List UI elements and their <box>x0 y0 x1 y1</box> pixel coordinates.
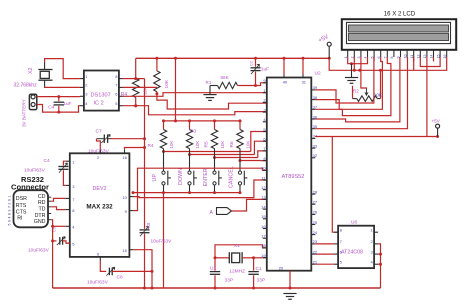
potentiometer R2 10K <box>353 70 381 101</box>
label U6 <box>351 220 357 226</box>
battery connector J1 3V BATTERY <box>29 94 36 109</box>
svg-text:8: 8 <box>390 57 394 59</box>
U6 left pin stubs <box>334 232 338 264</box>
wire MAX232 pin16 to VCC <box>125 148 145 150</box>
connector J2 RS232 <box>14 190 49 227</box>
svg-text:DEV2: DEV2 <box>92 186 106 192</box>
svg-text:10K: 10K <box>220 141 225 149</box>
label DOWN <box>178 168 184 185</box>
wire U2 pin40 VCC <box>283 58 285 77</box>
label C8 value <box>87 280 109 286</box>
svg-text:R4: R4 <box>148 143 154 149</box>
wire button ground rail <box>132 191 242 194</box>
label AT89S52 <box>282 174 305 180</box>
svg-text:10K: 10K <box>195 141 200 149</box>
svg-text:33: 33 <box>313 143 318 148</box>
label IC 2 <box>94 101 104 107</box>
svg-text:10uF/63V: 10uF/63V <box>87 280 109 286</box>
svg-text:10K: 10K <box>246 141 251 149</box>
svg-text:CD: CD <box>38 194 46 200</box>
label 1uF C2 <box>261 67 269 73</box>
DS1307 right pin stubs <box>119 79 123 106</box>
svg-text:7: 7 <box>8 206 12 208</box>
wire +5V drop to buttons <box>175 58 177 121</box>
label 12MHZ <box>229 268 245 274</box>
svg-text:R6: R6 <box>229 141 235 147</box>
svg-text:+5V: +5V <box>431 118 440 124</box>
label C5 <box>53 227 57 232</box>
wire X2 bottom to DS1307 pin2 <box>45 86 80 89</box>
capacitor C8 <box>100 261 153 276</box>
U2 left pin stubs <box>263 83 267 258</box>
svg-text:DTR: DTR <box>35 213 46 219</box>
wire XTAL node to U2 pin18 <box>214 245 267 259</box>
label MAX 232 <box>86 204 113 211</box>
label +5V right <box>431 118 440 124</box>
wire buttons to bottom rail <box>163 193 165 288</box>
label ENTER <box>203 168 209 186</box>
svg-text:UP: UP <box>152 174 158 182</box>
push button DOWN <box>188 149 197 193</box>
label C7 <box>96 129 102 135</box>
svg-text:10: 10 <box>403 55 407 59</box>
resistor R8 pull-up <box>154 58 160 95</box>
LCD pin stubs <box>348 50 447 57</box>
svg-text:R2: R2 <box>353 89 359 94</box>
svg-text:U2: U2 <box>315 71 321 77</box>
svg-text:CANCEL: CANCEL <box>229 166 235 188</box>
label 56K <box>221 75 230 80</box>
svg-text:32: 32 <box>313 153 318 158</box>
svg-text:MAX 232: MAX 232 <box>86 204 113 211</box>
svg-text:15: 15 <box>261 214 266 219</box>
svg-text:10uF/63V: 10uF/63V <box>151 239 173 245</box>
wire U2 pin21 to U6 pin5 <box>315 263 334 265</box>
wire button pullup rail <box>162 119 242 122</box>
svg-text:14: 14 <box>261 204 266 209</box>
label X2 <box>28 68 34 74</box>
wire U2 pin20 to ground <box>289 271 291 288</box>
label R4 10K <box>169 141 174 149</box>
svg-text:33P: 33P <box>225 278 234 284</box>
svg-text:GND: GND <box>34 219 46 225</box>
label R6 10K <box>246 141 251 149</box>
svg-text:U1: U1 <box>210 266 216 272</box>
crystal X1 12MHZ <box>215 252 254 263</box>
svg-text:10uF/63V: 10uF/63V <box>28 248 50 254</box>
wire tag A to U2 pin13 <box>232 199 267 211</box>
svg-text:20: 20 <box>279 265 284 270</box>
wire battery- to DS1307 pin4 <box>37 105 80 113</box>
label R3 <box>190 129 196 135</box>
label R8 value <box>164 79 170 88</box>
svg-text:19: 19 <box>261 253 266 258</box>
capacitor U1 33P <box>210 258 220 288</box>
svg-text:33P: 33P <box>257 278 266 284</box>
LCD display row 2 <box>349 33 449 40</box>
label C5 value <box>28 248 50 254</box>
U2 left pin numbers <box>261 78 266 258</box>
wire U2 pin23 to U6 pin7 <box>315 243 334 245</box>
push button CANCEL <box>238 149 247 193</box>
capacitor C3 <box>58 161 68 185</box>
DS1307 left pin stubs <box>80 79 84 106</box>
svg-text:CTS: CTS <box>16 209 27 215</box>
wire SCL net to U2 pin2 <box>157 94 267 109</box>
wire TD to MAX232 pin8 <box>51 207 66 210</box>
label R4 value <box>143 87 148 95</box>
wire U2 P0.2 to LCD D2 <box>315 57 391 116</box>
wire DS1307 pin7 net <box>123 86 157 88</box>
label C1 33P <box>257 278 266 284</box>
svg-text:RD: RD <box>38 200 46 206</box>
svg-text:1: 1 <box>8 195 12 197</box>
label C1 <box>256 266 262 272</box>
wire UP node to U2 <box>162 132 267 154</box>
svg-text:1uF: 1uF <box>63 101 71 107</box>
connector pin stubs <box>48 197 52 220</box>
resistor R4 10K button pull-up <box>160 121 166 149</box>
svg-text:8: 8 <box>8 213 12 215</box>
svg-text:2: 2 <box>8 202 12 204</box>
label Connector <box>11 183 49 192</box>
label C3 value <box>24 168 46 174</box>
wire +5V feed to EEPROM <box>332 137 338 233</box>
ground under R1 <box>203 95 216 101</box>
wire +5V rail end to LCD <box>329 57 447 72</box>
label 1uF <box>63 101 71 107</box>
label U1 <box>210 266 216 272</box>
label A <box>210 210 214 216</box>
svg-text:DOWN: DOWN <box>178 168 184 185</box>
svg-text:U6: U6 <box>351 220 357 226</box>
LCD inner bezel <box>347 22 451 43</box>
capacitor C1 33P <box>248 258 258 288</box>
label C4 <box>48 104 54 110</box>
wire LCD D5 to bus <box>426 57 428 137</box>
label U1 33P <box>225 278 234 284</box>
push button UP <box>162 149 171 193</box>
LCD pin leads <box>374 57 433 62</box>
IC U3 DS1307 <box>84 71 119 111</box>
IC U2 AT89S52 <box>267 78 312 271</box>
label RS232 <box>21 175 44 184</box>
label C6 value <box>151 239 173 245</box>
capacitor C7 <box>97 135 112 143</box>
svg-text:C2: C2 <box>249 61 253 66</box>
label C2 <box>249 61 253 66</box>
wire C7 left to MAX232 pin2 <box>97 139 101 150</box>
label R1 <box>206 80 212 85</box>
wire R1 to RST <box>238 83 267 87</box>
svg-text:C1: C1 <box>256 266 262 272</box>
wire U2 P0.0 to LCD D0 <box>315 57 374 103</box>
IC U6 AT24C08 <box>338 226 374 268</box>
svg-text:RI: RI <box>17 216 22 222</box>
label UP <box>152 174 158 182</box>
MAX232 pin stubs <box>66 149 134 261</box>
svg-text:X2: X2 <box>28 68 34 74</box>
svg-text:16: 16 <box>261 224 266 229</box>
wire U6 address pins to ground <box>378 244 382 288</box>
svg-text:10: 10 <box>122 195 127 200</box>
label R2 <box>353 89 359 94</box>
resistor R3 10K button pull-up <box>186 121 192 149</box>
U2 right pin numbers <box>313 85 318 264</box>
wire MAX232 pin9 to U2 pin10 <box>133 168 266 210</box>
label R2 10K <box>374 92 383 97</box>
svg-text:16 X 2 LCD: 16 X 2 LCD <box>384 11 416 18</box>
svg-text:32.768khz: 32.768khz <box>14 83 38 89</box>
wire MAX232 pin10 to U2 pin11 <box>133 180 266 198</box>
svg-text:X1: X1 <box>234 243 240 248</box>
svg-text:15: 15 <box>122 248 127 253</box>
capacitor C6 <box>140 226 150 289</box>
svg-text:3: 3 <box>8 209 12 211</box>
wire VCC drop to MAX232 <box>143 79 146 229</box>
label 32.768khz <box>14 83 38 89</box>
tag A pointer <box>217 208 232 215</box>
svg-text:DS1307: DS1307 <box>91 93 111 99</box>
label 16 X 2 LCD <box>384 11 416 18</box>
wire X2 top to DS1307 pin1 <box>45 59 80 79</box>
svg-text:31: 31 <box>302 80 307 85</box>
svg-text:R5: R5 <box>204 141 210 147</box>
U6 pin numbers <box>340 227 374 264</box>
DS1307 pin numbers <box>85 74 118 106</box>
label R4 <box>121 92 128 98</box>
svg-text:25: 25 <box>313 220 318 225</box>
svg-text:C7: C7 <box>96 129 102 135</box>
capacitor C4 <box>54 95 64 114</box>
connector pin labels right <box>34 194 46 225</box>
label R5 10K <box>220 141 225 149</box>
U2 pin20 number <box>279 265 284 270</box>
MAX232 pin numbers <box>72 155 127 256</box>
wire SDA net to U2 pin3 <box>123 104 267 115</box>
svg-text:10K: 10K <box>164 79 170 88</box>
svg-text:AT89S52: AT89S52 <box>282 174 305 180</box>
ground under LCD <box>345 64 358 84</box>
svg-text:C4: C4 <box>48 104 54 110</box>
LCD LCD1 16x2 outer <box>342 19 456 50</box>
U2 top pin numbers <box>283 80 307 85</box>
svg-text:3V BATTERY: 3V BATTERY <box>22 99 27 127</box>
IC U4 MAX232 <box>70 153 130 257</box>
wire battery+ to DS1307 pin3 <box>37 96 80 98</box>
wire +5V top rail <box>136 57 331 60</box>
svg-text:C8: C8 <box>146 222 151 228</box>
svg-text:6: 6 <box>8 199 12 201</box>
svg-text:10K: 10K <box>169 141 174 149</box>
wire GND to bottom rail <box>51 220 52 288</box>
connector pin labels left <box>16 196 27 221</box>
wire LCD pin11 to +5V bus <box>413 57 415 70</box>
wire ENTER node to U2 <box>213 151 267 159</box>
label CANCEL <box>229 166 235 188</box>
wire U2 P0.5 / +5V bus <box>315 135 439 138</box>
wire RD to MAX232 pin7 <box>51 198 66 201</box>
capacitor C5 <box>51 225 70 245</box>
U2 right pin stubs <box>311 90 315 264</box>
wire LCD pin2 VDD <box>353 57 355 70</box>
label R3 10K <box>195 141 200 149</box>
svg-text:1uF: 1uF <box>261 67 269 73</box>
label C8 <box>117 275 123 281</box>
label 3V BATTERY <box>22 99 27 127</box>
svg-text:10: 10 <box>261 166 266 171</box>
svg-text:26: 26 <box>313 210 318 215</box>
wire R2 wiper to LCD pin3 <box>361 57 367 89</box>
label U2 <box>315 71 321 77</box>
svg-text:ENTER: ENTER <box>203 168 209 186</box>
resistor R4 pull-up <box>133 58 139 107</box>
svg-text:R1: R1 <box>206 80 212 85</box>
svg-text:DSR: DSR <box>16 196 27 202</box>
wire U2 P0.1 to LCD D1 <box>315 57 382 109</box>
svg-text:28: 28 <box>313 189 318 194</box>
svg-text:13: 13 <box>261 195 266 200</box>
power terminal +5V top <box>327 42 331 58</box>
wire XTAL right node to U2 pin19 <box>252 256 267 259</box>
wire C7 right to VCC <box>112 138 145 140</box>
label C7 value <box>88 149 110 155</box>
ground at U2 pin20 <box>283 294 296 300</box>
svg-text:C8: C8 <box>117 275 123 281</box>
resistor R6 10K button pull-up <box>237 121 243 149</box>
svg-text:18: 18 <box>261 243 266 248</box>
svg-text:27: 27 <box>313 200 318 205</box>
wire LCD pin15 corner <box>420 57 440 67</box>
wire DS1307 pin8 VCC <box>123 78 145 80</box>
wire MAX232 pin15 to ground rail <box>133 250 153 290</box>
resistor R1 56K <box>210 82 238 94</box>
svg-text:12: 12 <box>261 185 266 190</box>
LCD display row 1 <box>349 25 449 32</box>
wire CANCEL node to U2 <box>239 159 267 162</box>
svg-text:IC 2: IC 2 <box>94 101 104 107</box>
svg-text:10uF/63V: 10uF/63V <box>24 168 46 174</box>
wire LCD ground net <box>348 57 368 65</box>
label +5V top <box>318 34 330 44</box>
svg-text:16: 16 <box>122 155 127 160</box>
svg-text:TD: TD <box>38 206 45 212</box>
label AT24C08 <box>341 250 363 256</box>
label C6 <box>146 222 151 228</box>
wire DOWN node to U2 <box>188 141 267 156</box>
svg-text:56K: 56K <box>221 75 230 80</box>
wire U2 P0.3 to LCD D3 <box>315 57 400 122</box>
label X1 <box>234 243 240 248</box>
svg-text:RTS: RTS <box>16 203 27 209</box>
wire U2 pin31 EA <box>302 58 304 77</box>
connector pin numbers <box>8 195 12 225</box>
LCD pin numbers <box>344 55 447 59</box>
svg-text:5: 5 <box>8 223 12 225</box>
wire SQW net to U2 pin1 <box>123 93 267 97</box>
svg-text:4: 4 <box>8 216 12 218</box>
wire bottom ground rail <box>53 287 381 290</box>
push button ENTER <box>213 149 222 193</box>
label R6 <box>229 141 235 147</box>
label C3 <box>44 158 50 164</box>
svg-text:AT24C08: AT24C08 <box>341 250 363 256</box>
svg-text:9: 9 <box>8 220 12 222</box>
svg-text:C4: C4 <box>44 158 50 164</box>
crystal X2 32.768kHz <box>38 63 52 87</box>
label R5 <box>204 141 210 147</box>
capacitor C2 1uF <box>251 58 261 85</box>
svg-text:R3: R3 <box>190 129 196 135</box>
svg-text:10K: 10K <box>374 92 383 97</box>
U6 right pin stubs <box>374 232 378 264</box>
label R4 <box>148 143 154 149</box>
label DEV2 <box>92 186 106 192</box>
wire U2 P0.4 to LCD D4 <box>315 57 407 129</box>
resistor R5 10K button pull-up <box>211 121 217 149</box>
svg-text:17: 17 <box>261 234 266 239</box>
power terminal +5V right <box>436 124 440 136</box>
svg-text:24: 24 <box>313 230 318 235</box>
svg-text:40: 40 <box>283 80 288 85</box>
wire U2 pin22 to U6 pin6 <box>315 253 334 255</box>
label DS1307 <box>91 93 111 99</box>
svg-text:12MHZ: 12MHZ <box>229 268 245 274</box>
